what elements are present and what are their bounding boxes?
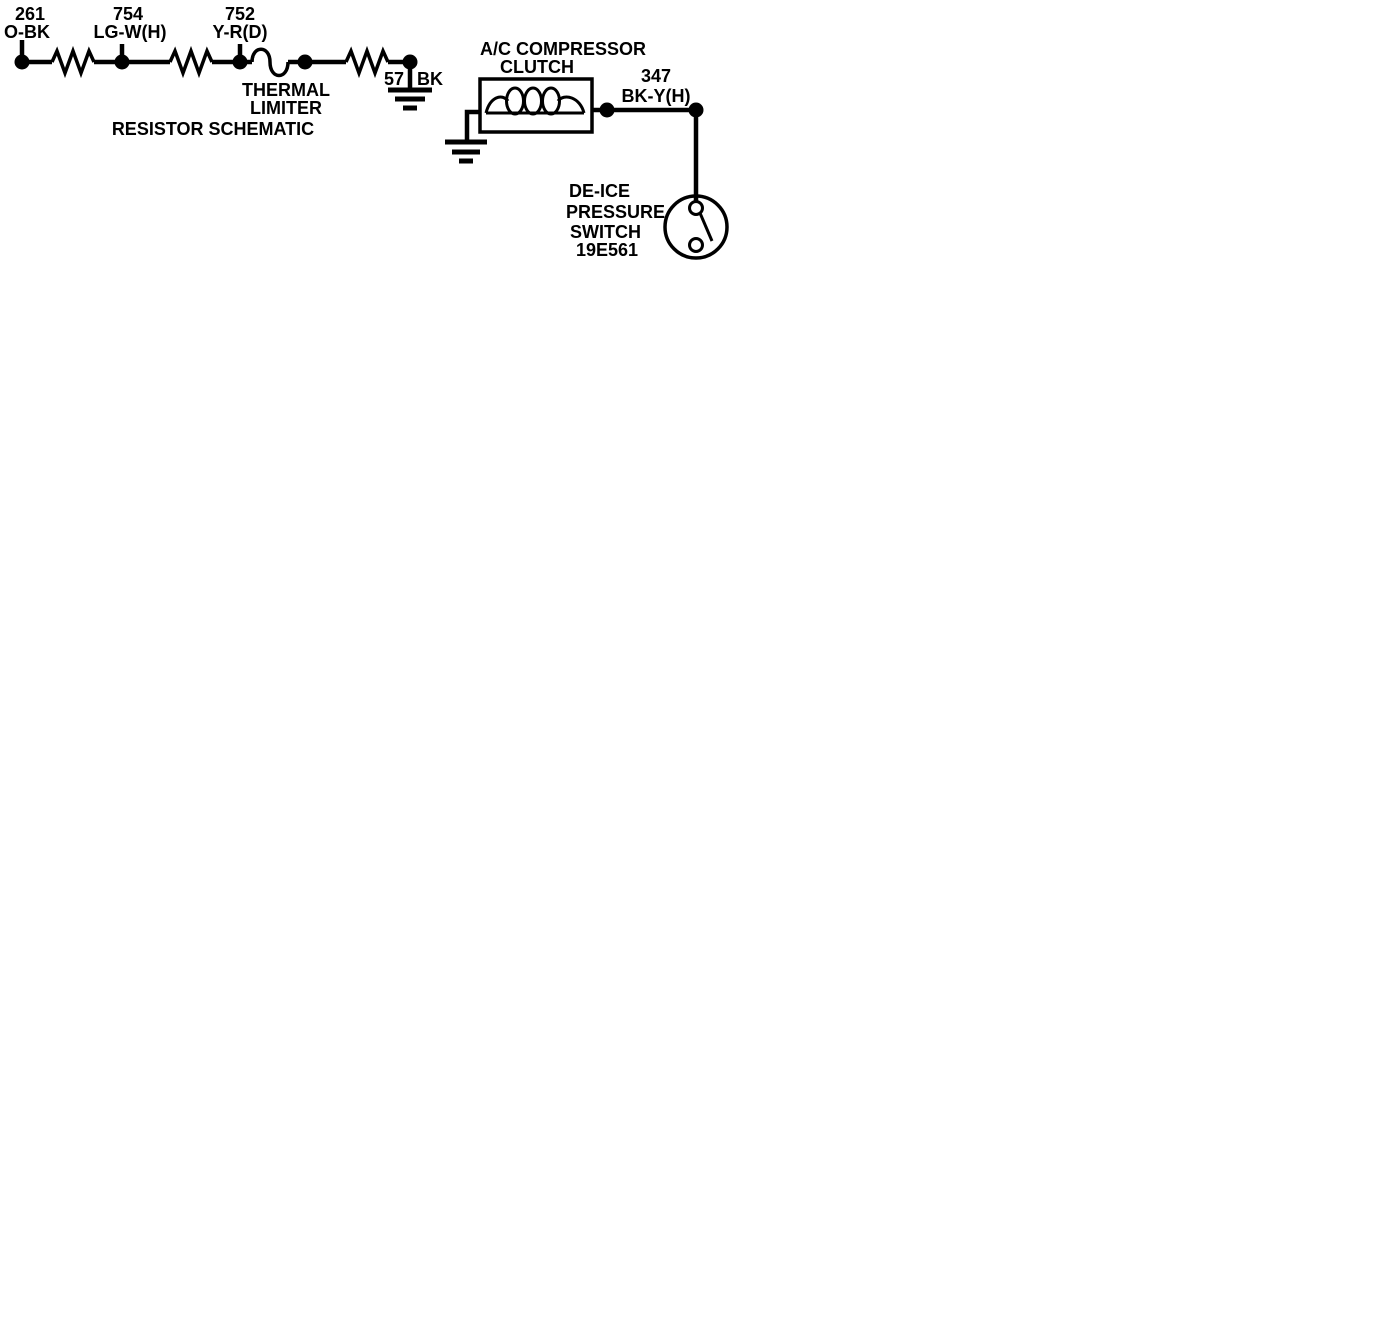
- wire down to de-ice switch: [694, 110, 699, 201]
- svg-text:O-BK: O-BK: [4, 22, 50, 42]
- resistor to ground 57: [346, 51, 388, 73]
- node dot 752: [233, 55, 248, 70]
- wire: thermal limiter resistor schematic main line: [22, 60, 410, 65]
- wire 347 BK-Y(H): [592, 108, 696, 113]
- svg-text:RESISTOR SCHEMATIC: RESISTOR SCHEMATIC: [112, 119, 314, 139]
- node dot after thermal limiter: [298, 55, 313, 70]
- svg-text:261: 261: [15, 4, 45, 24]
- terminal stub 752: [238, 44, 243, 62]
- svg-text:BK: BK: [417, 69, 443, 89]
- svg-text:SWITCH: SWITCH: [570, 222, 641, 242]
- svg-text:CLUTCH: CLUTCH: [500, 57, 574, 77]
- svg-text:57: 57: [384, 69, 404, 89]
- svg-text:Y-R(D): Y-R(D): [213, 22, 268, 42]
- terminal stub 261: [20, 40, 25, 62]
- svg-text:A/C COMPRESSOR: A/C COMPRESSOR: [480, 39, 646, 59]
- svg-text:LG-W(H): LG-W(H): [94, 22, 167, 42]
- resistor 754/752: [170, 51, 212, 73]
- ground (A/C clutch): [445, 142, 487, 161]
- clutch coil: [486, 97, 508, 113]
- svg-text:THERMAL: THERMAL: [242, 80, 330, 100]
- svg-text:347: 347: [641, 66, 671, 86]
- svg-text:PRESSURE: PRESSURE: [566, 202, 665, 222]
- svg-text:DE-ICE: DE-ICE: [569, 181, 630, 201]
- resistor 261/754: [52, 51, 94, 73]
- A/C compressor clutch box: [480, 79, 592, 132]
- terminal stub 754: [120, 44, 125, 62]
- ground (thermal limiter schematic): [388, 90, 432, 108]
- thermal limiter element: [252, 49, 288, 75]
- node dot 754: [115, 55, 130, 70]
- svg-text:LIMITER: LIMITER: [250, 98, 322, 118]
- svg-text:19E561: 19E561: [576, 240, 638, 260]
- svg-text:BK-Y(H): BK-Y(H): [622, 86, 691, 106]
- svg-text:752: 752: [225, 4, 255, 24]
- de-ice switch lever: [700, 213, 712, 241]
- wire clutch to ground: [467, 112, 480, 140]
- node dot 57: [403, 55, 418, 70]
- de-ice pressure switch 19E561 body: [665, 196, 727, 258]
- node dot at clutch output: [600, 103, 615, 118]
- node dot 347 junction: [689, 103, 704, 118]
- svg-text:754: 754: [113, 4, 143, 24]
- node dot 261: [15, 55, 30, 70]
- wire to ground 57 BK: [408, 62, 413, 88]
